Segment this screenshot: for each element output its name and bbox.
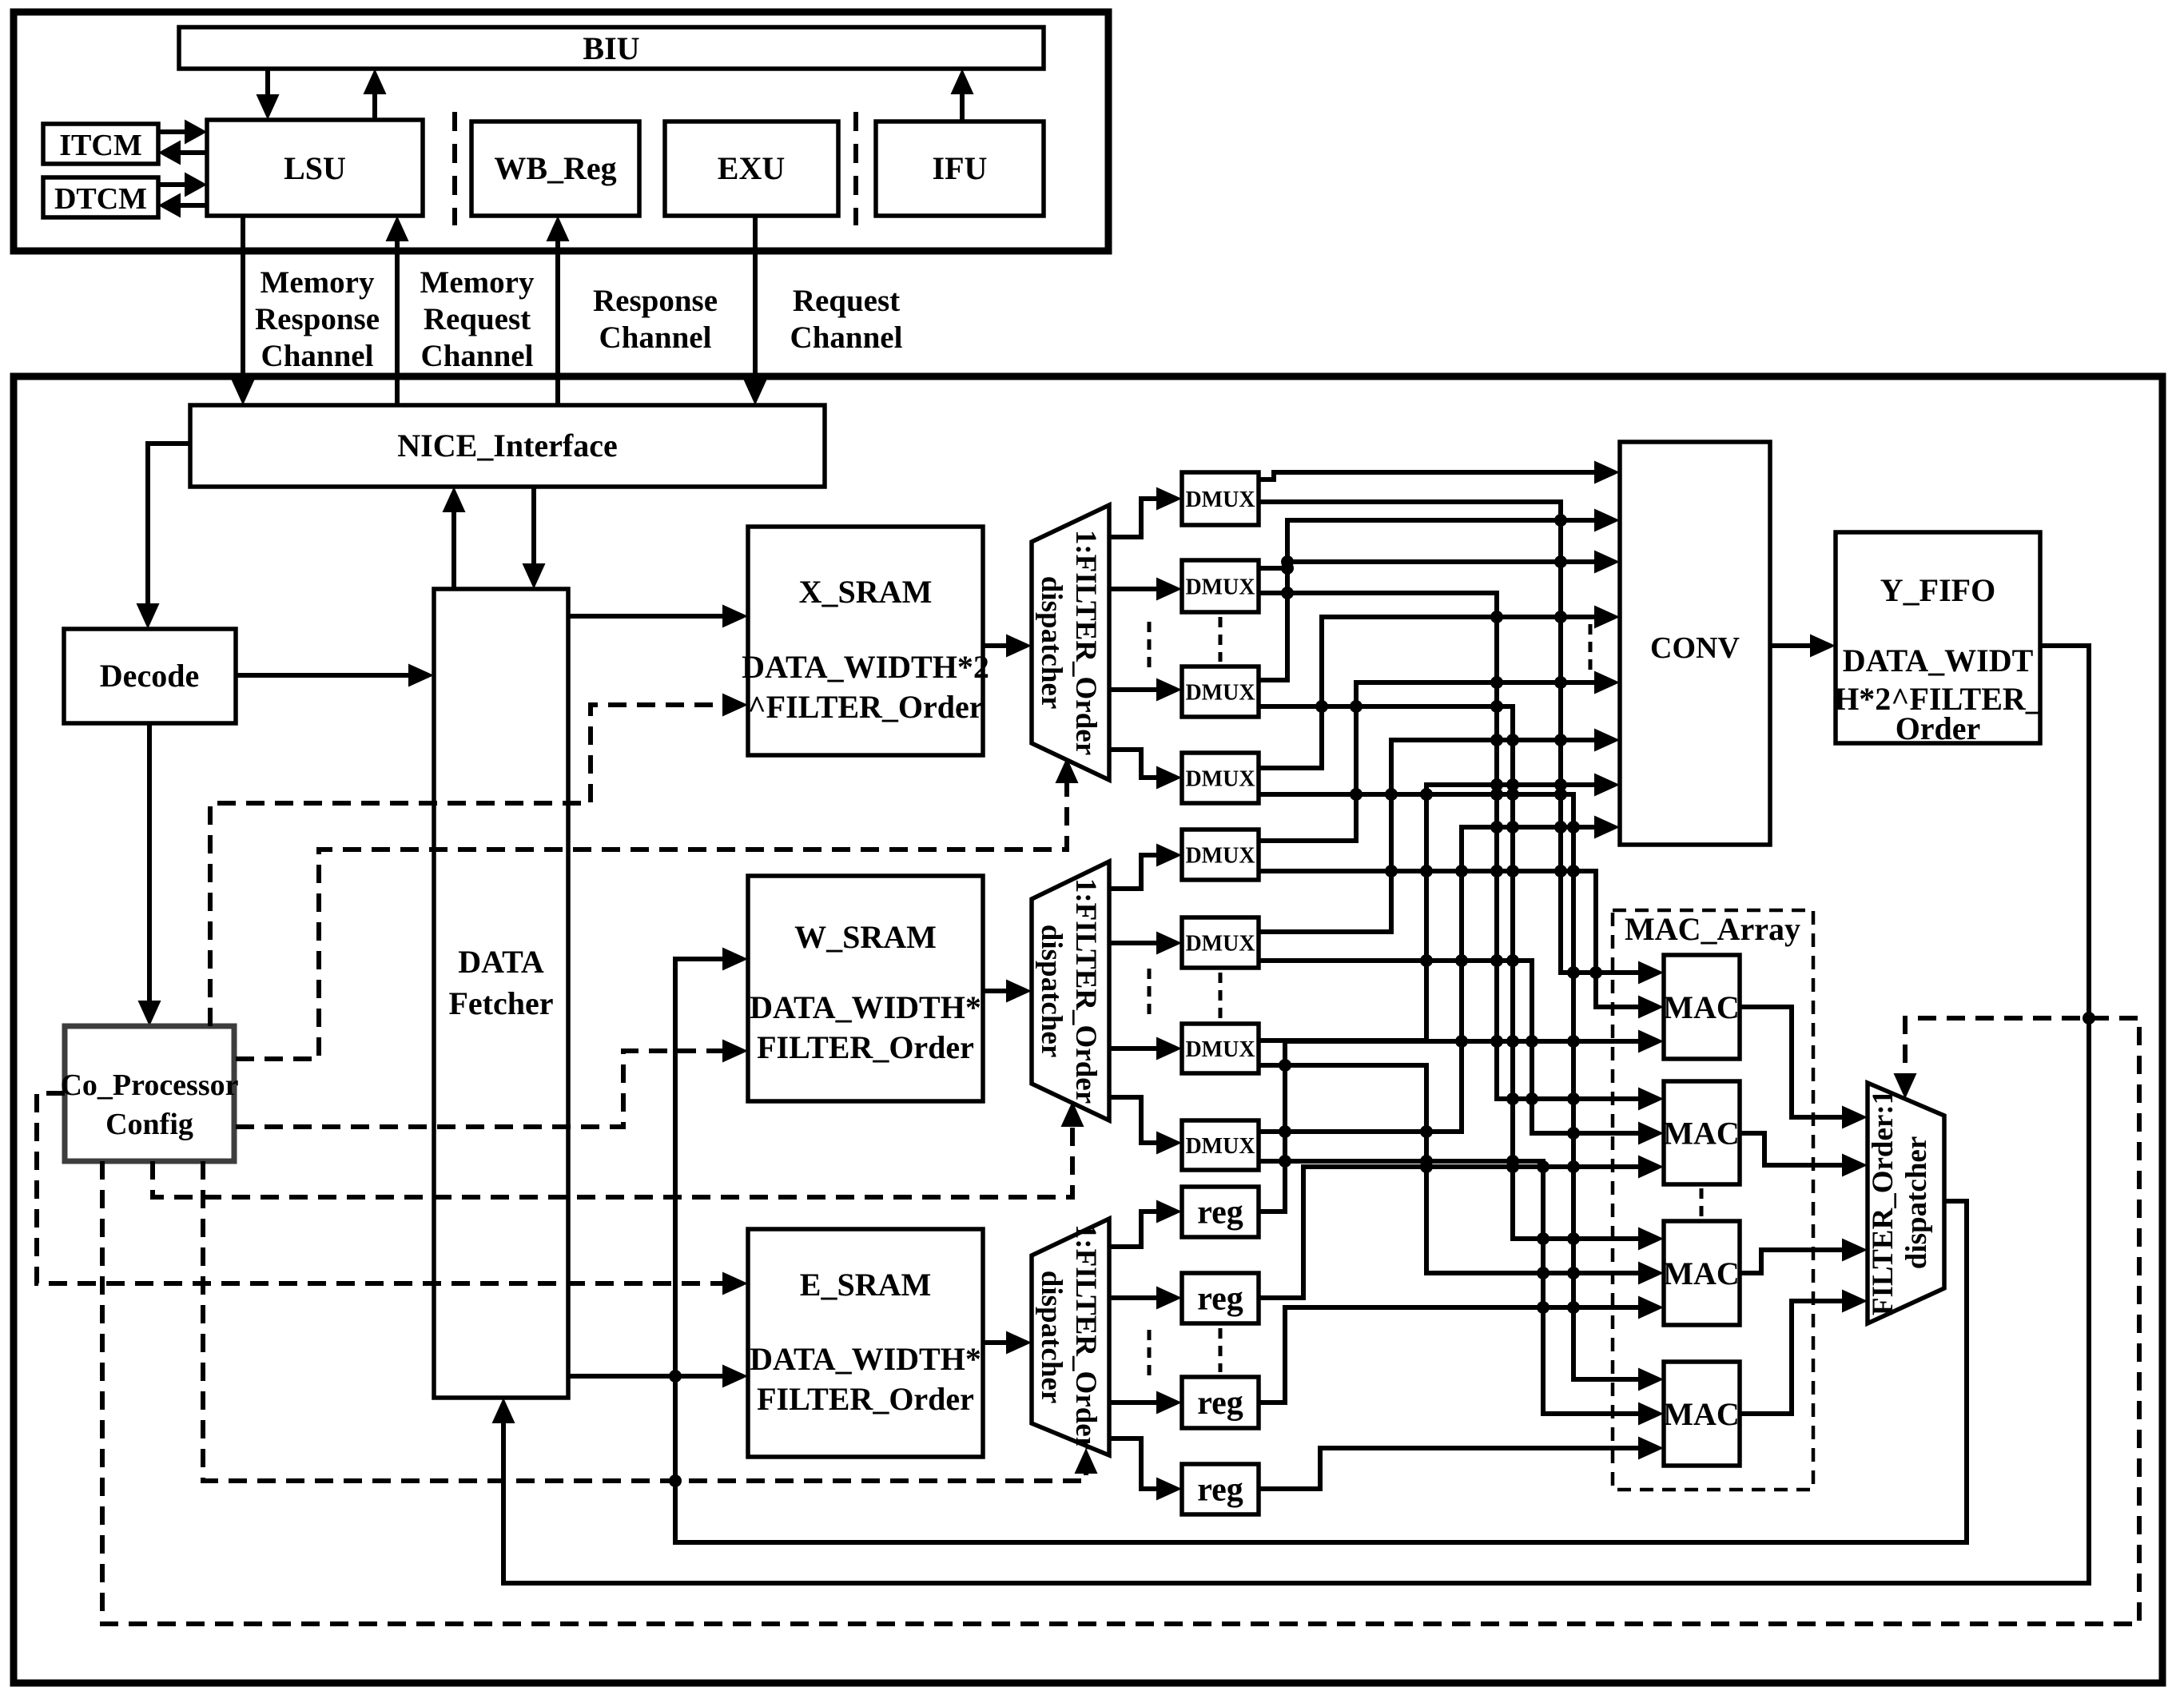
block CONV (1620, 442, 1770, 845)
wire DMUX 7 to CONV (1259, 774, 1620, 1041)
svg-text:reg: reg (1197, 1195, 1243, 1231)
wire W dispatcher to DMUX 8 (1109, 1097, 1182, 1155)
block LSU (207, 120, 423, 216)
wire DMUX 8 to MAC 4 (1259, 1161, 1664, 1426)
dispatcher 1:FILTER_Order (X) (1032, 505, 1109, 780)
block DMUX 6 (1182, 917, 1259, 968)
block DMUX 8 (1182, 1120, 1259, 1170)
wire DMUX 1 to MAC 1 (1259, 502, 1664, 985)
svg-text:Memory: Memory (261, 265, 375, 300)
svg-text:DMUX: DMUX (1185, 932, 1255, 957)
svg-text:Channel: Channel (599, 320, 712, 355)
svg-text:X_SRAM: X_SRAM (799, 574, 933, 610)
wire E dispatcher to reg 4 (1109, 1438, 1182, 1501)
ellipsis W dispatcher outputs (1148, 969, 1152, 1015)
wire reg 2 to MAC 2 (1259, 1156, 1664, 1299)
svg-text:reg: reg (1197, 1385, 1243, 1422)
svg-text:DATA: DATA (458, 944, 544, 980)
block reg 3 (1182, 1377, 1259, 1428)
block ITCM (43, 124, 158, 164)
svg-text:WB_Reg: WB_Reg (494, 150, 616, 186)
junction dot 1611a (1281, 555, 1294, 568)
svg-text:dispatcher: dispatcher (1035, 576, 1068, 710)
junction dot dashed loop / Y feedback (2083, 1012, 2095, 1025)
wire DMUX 2 to CONV (1259, 566, 1287, 571)
svg-text:FILTER_Order:1: FILTER_Order:1 (1867, 1090, 1900, 1315)
svg-text:1:FILTER_Order: 1:FILTER_Order (1069, 530, 1102, 755)
wire W dispatcher to DMUX 6 (1109, 932, 1182, 955)
wire DMUX 2 to MAC 2 (1259, 593, 1664, 1111)
block DATA Fetcher (434, 589, 568, 1398)
wire E dispatcher to reg 2 (1109, 1287, 1182, 1310)
wire X dispatcher to DMUX 1 (1109, 487, 1182, 538)
wire LSU to BIU (364, 69, 387, 120)
block DMUX 7 (1182, 1024, 1259, 1073)
wire DTCM to LSU (158, 173, 207, 197)
dispatcher 1:FILTER_Order (W) (1032, 861, 1109, 1120)
svg-text:DMUX: DMUX (1185, 487, 1255, 512)
ellipsis CONV inputs (1589, 624, 1593, 674)
block Co_Processor Config (60, 1026, 238, 1161)
wire ITCM to LSU (158, 120, 207, 145)
block DMUX 5 (1182, 830, 1259, 880)
wire DMUX 3 to CONV (1287, 551, 1620, 574)
block MAC 4 (1663, 1362, 1740, 1466)
block X_SRAM (742, 527, 989, 755)
wire DATA Fetcher to NICE_Interface (443, 487, 466, 589)
svg-text:E_SRAM: E_SRAM (800, 1267, 931, 1303)
svg-text:Y_FIFO: Y_FIFO (1880, 572, 1995, 608)
svg-text:Channel: Channel (261, 339, 374, 373)
dashed wire Co_Processor Config to W_SRAM (236, 1040, 748, 1128)
svg-text:DMUX: DMUX (1185, 1037, 1255, 1062)
svg-text:Memory: Memory (420, 265, 535, 300)
svg-text:MAC: MAC (1663, 1396, 1740, 1432)
svg-text:1:FILTER_Order: 1:FILTER_Order (1069, 878, 1102, 1104)
wire DMUX 5 to CONV (1259, 671, 1620, 842)
wire DMUX 7 to MAC 3 (1259, 1065, 1664, 1285)
label Response Channel (593, 284, 718, 355)
wire DMUX 4 to MAC 4 (1259, 794, 1664, 1391)
block MAC 2 (1663, 1081, 1740, 1184)
wire output dispatcher to W_SRAM (write bus) (675, 948, 1967, 1543)
wire MAC 2 to output dispatcher (1740, 1133, 1868, 1177)
wire E dispatcher to reg 1 (1109, 1200, 1182, 1247)
wire reg 4 to MAC 4 (1259, 1437, 1664, 1490)
ellipsis DMUX 2-3 (1219, 617, 1223, 662)
svg-text:CONV: CONV (1650, 631, 1740, 665)
block BIU (179, 27, 1044, 69)
svg-text:DATA_WIDTH*2: DATA_WIDTH*2 (742, 649, 989, 685)
wire MAC 3 to output dispatcher (1740, 1239, 1868, 1274)
dispatcher FILTER_Order:1 (1867, 1083, 1944, 1323)
wire W dispatcher to DMUX 7 (1109, 1037, 1182, 1060)
dashed wire Co_Processor Config to E_SRAM (37, 1093, 748, 1295)
svg-text:reg: reg (1197, 1281, 1243, 1318)
dashed wire Co_Processor Config to W dispatcher (153, 1101, 1084, 1197)
svg-text:MAC: MAC (1663, 1116, 1740, 1152)
wire W dispatcher to DMUX 5 (1109, 844, 1182, 889)
svg-text:DMUX: DMUX (1185, 844, 1255, 869)
wire DMUX 6 to CONV (1259, 729, 1620, 933)
svg-text:dispatcher: dispatcher (1900, 1136, 1933, 1270)
ellipsis reg 2-3 (1219, 1328, 1223, 1372)
wire X dispatcher to DMUX 3 (1109, 678, 1182, 702)
ellipsis E dispatcher outputs (1148, 1330, 1152, 1379)
wire IFU to BIU (951, 69, 974, 121)
svg-text:Order: Order (1896, 710, 1981, 746)
wire LSU to DTCM (158, 193, 207, 218)
wire MAC 4 to output dispatcher (1740, 1290, 1868, 1415)
wire CONV to Y_FIFO (1770, 635, 1836, 658)
wire DATA Fetcher to X_SRAM (568, 605, 748, 628)
accelerator outer box (14, 376, 2162, 1683)
wire Memory Response Channel (232, 216, 255, 405)
svg-text:Request: Request (793, 284, 900, 318)
MAC_Array dashed box (1613, 910, 1813, 1490)
block MAC 1 (1663, 955, 1740, 1059)
block reg 1 (1182, 1187, 1259, 1237)
svg-text:Fetcher: Fetcher (448, 985, 553, 1021)
wire DMUX 3 to MAC 3 (1259, 706, 1664, 1251)
svg-text:DATA_WIDT: DATA_WIDT (1843, 643, 2034, 678)
block IFU (876, 121, 1044, 216)
wire W_SRAM to W dispatcher (983, 980, 1032, 1003)
CPU core outer box (14, 12, 1108, 251)
svg-text:DMUX: DMUX (1185, 1134, 1255, 1159)
block reg 2 (1182, 1273, 1259, 1323)
junction dot dashed E line / write bus (669, 1474, 682, 1487)
svg-text:BIU: BIU (583, 30, 639, 66)
svg-text:reg: reg (1197, 1472, 1243, 1509)
label Memory Request Channel (420, 265, 535, 373)
svg-text:MAC: MAC (1663, 989, 1740, 1025)
svg-text:Decode: Decode (100, 658, 199, 694)
wire Decode to DATA Fetcher (236, 664, 434, 687)
block EXU (665, 121, 838, 216)
wire bundle x1611 (1259, 509, 1620, 681)
wire DMUX 8 to CONV (1259, 816, 1620, 1132)
svg-text:LSU: LSU (284, 150, 346, 186)
wire X_SRAM to X dispatcher (983, 635, 1032, 658)
wire reg 1 to MAC 1 (1259, 1030, 1664, 1212)
block DMUX 1 (1182, 472, 1259, 525)
dashed wire Co_Processor Config to E dispatcher (203, 1161, 1098, 1481)
svg-text:DMUX: DMUX (1185, 767, 1255, 792)
dispatcher 1:FILTER_Order (E) (1032, 1219, 1109, 1455)
svg-text:Co_Processor: Co_Processor (60, 1068, 238, 1102)
svg-text:Request: Request (424, 302, 531, 336)
svg-text:DATA_WIDTH*: DATA_WIDTH* (750, 989, 981, 1025)
block E_SRAM (748, 1229, 983, 1457)
svg-text:NICE_Interface: NICE_Interface (397, 428, 618, 464)
svg-text:Response: Response (593, 284, 718, 318)
block Y_FIFO (1834, 532, 2043, 746)
wire NICE_Interface to DATA Fetcher (523, 487, 546, 589)
ellipsis DMUX 6-7 (1219, 973, 1223, 1019)
wire DATA Fetcher to E_SRAM (568, 1365, 748, 1388)
wire DMUX 1 to CONV (1259, 461, 1620, 484)
block MAC 3 (1663, 1221, 1740, 1325)
svg-text:Channel: Channel (790, 320, 903, 355)
wire Decode to Co_Processor Config (138, 723, 161, 1026)
svg-text:FILTER_Order: FILTER_Order (757, 1381, 974, 1417)
block DMUX 4 (1182, 753, 1259, 803)
svg-text:dispatcher: dispatcher (1035, 1271, 1068, 1404)
svg-text:W_SRAM: W_SRAM (794, 919, 937, 955)
dashed separator EXU/IFU (853, 112, 858, 225)
dashed wire Co_Processor Config to X dispatcher (236, 758, 1079, 1059)
svg-text:Response: Response (255, 302, 380, 336)
svg-text:1:FILTER_Order: 1:FILTER_Order (1069, 1224, 1102, 1450)
svg-text:DATA_WIDTH*: DATA_WIDTH* (750, 1341, 981, 1377)
block DMUX 3 (1182, 666, 1259, 717)
wire X dispatcher to DMUX 2 (1109, 578, 1182, 601)
wire DMUX 4 to CONV (1259, 606, 1620, 769)
wire E_SRAM to E dispatcher (983, 1331, 1032, 1355)
wire E dispatcher to reg 3 (1109, 1391, 1182, 1415)
svg-text:IFU: IFU (933, 150, 988, 186)
wire DMUX 6 to MAC 2 (1259, 961, 1664, 1145)
svg-text:DMUX: DMUX (1185, 575, 1255, 600)
wire LSU to ITCM (158, 141, 207, 165)
wire NICE to Decode (137, 444, 191, 629)
svg-text:Channel: Channel (421, 339, 534, 373)
svg-text:DTCM: DTCM (54, 182, 147, 216)
block NICE_Interface (190, 405, 825, 487)
wire BIU to LSU (257, 69, 280, 120)
svg-text:dispatcher: dispatcher (1035, 925, 1068, 1058)
wire Response Channel (547, 216, 570, 405)
junction dots mesh (1279, 514, 1602, 1314)
svg-text:^FILTER_Order: ^FILTER_Order (747, 689, 983, 725)
junction dot write bus (669, 1370, 682, 1383)
block Decode (64, 629, 236, 723)
svg-text:DMUX: DMUX (1185, 681, 1255, 706)
svg-text:FILTER_Order: FILTER_Order (757, 1029, 974, 1065)
label Request Channel (790, 284, 903, 355)
ellipsis MAC 2-3 (1700, 1188, 1704, 1217)
dashed wire Co_Processor Config to X_SRAM (210, 694, 748, 1027)
svg-text:EXU: EXU (718, 150, 785, 186)
wire Request Channel (744, 216, 767, 405)
wire reg 3 to MAC 3 (1259, 1296, 1664, 1403)
dashed separator LSU/WB_Reg (452, 112, 457, 225)
block DMUX 2 (1182, 560, 1259, 612)
block WB_Reg (471, 121, 639, 216)
wire X dispatcher to DMUX 4 (1109, 750, 1182, 790)
block reg 4 (1182, 1464, 1259, 1514)
svg-text:MAC_Array: MAC_Array (1625, 911, 1800, 947)
wire DMUX 5 to MAC 1 (1259, 871, 1664, 1019)
dashed wire Co_Processor Config to output dispatcher (bottom loop) (102, 1018, 2139, 1624)
ellipsis X dispatcher outputs (1148, 622, 1152, 670)
junction dot 1611b (1281, 562, 1294, 575)
block DTCM (43, 177, 158, 217)
label Memory Response Channel (255, 265, 380, 373)
wire MAC 1 to output dispatcher (1740, 1007, 1868, 1129)
svg-text:MAC: MAC (1663, 1255, 1740, 1291)
svg-text:ITCM: ITCM (59, 129, 141, 162)
svg-text:Config: Config (105, 1108, 193, 1141)
wire Y_FIFO to DATA Fetcher (feedback) (492, 646, 2090, 1583)
wire Memory Request Channel (386, 216, 409, 405)
block W_SRAM (748, 876, 983, 1101)
